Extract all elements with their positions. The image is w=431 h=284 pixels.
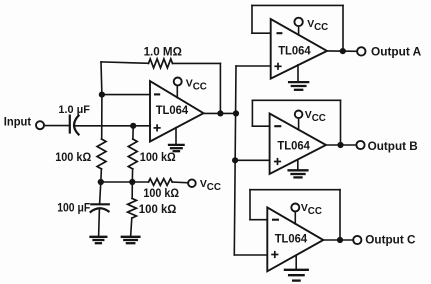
svg-text:100 kΩ: 100 kΩ [55, 152, 91, 164]
svg-text:100 kΩ: 100 kΩ [140, 152, 176, 164]
svg-text:100 kΩ: 100 kΩ [139, 204, 177, 216]
svg-text:TL064: TL064 [277, 141, 310, 153]
svg-text:TL064: TL064 [156, 105, 189, 117]
svg-text:CC: CC [312, 113, 326, 124]
svg-text:Output C: Output C [365, 235, 415, 247]
svg-text:TL064: TL064 [278, 45, 311, 57]
svg-text:CC: CC [308, 206, 322, 217]
svg-text:TL064: TL064 [275, 233, 308, 245]
svg-text:100 μF: 100 μF [57, 203, 90, 215]
svg-text:1.0 MΩ: 1.0 MΩ [144, 44, 182, 58]
svg-text:CC: CC [207, 182, 221, 193]
svg-text:Input: Input [4, 117, 31, 129]
svg-text:1.0 μF: 1.0 μF [58, 104, 90, 116]
svg-text:CC: CC [193, 81, 207, 92]
svg-text:Output B: Output B [368, 141, 418, 153]
svg-text:CC: CC [314, 22, 328, 33]
svg-text:Output A: Output A [371, 46, 421, 58]
svg-text:100 kΩ: 100 kΩ [143, 188, 179, 200]
